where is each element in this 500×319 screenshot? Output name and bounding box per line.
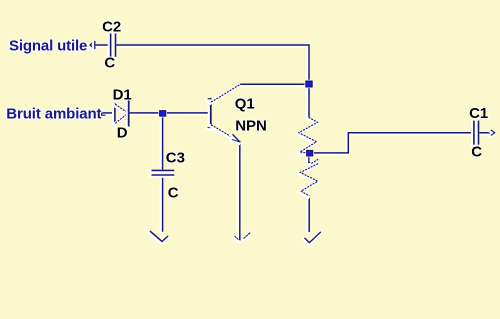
port arrow (output) [490, 131, 493, 136]
wire C2 to rail corner [115, 46, 308, 82]
node B (base junction) [160, 111, 166, 117]
svg-text:C: C [168, 185, 179, 202]
svg-text:NPN: NPN [235, 117, 267, 134]
transistor Q1 [207, 85, 240, 143]
wire C1 to output port [478, 132, 493, 136]
wire bruit port to D1 [102, 112, 114, 116]
wiper arrow mark [308, 156, 318, 164]
svg-text:C: C [471, 144, 482, 161]
diode D1 [114, 101, 129, 127]
svg-text:C1: C1 [469, 105, 488, 122]
ground below R2 [304, 233, 319, 243]
svg-text:D: D [117, 124, 128, 141]
svg-text:C: C [104, 54, 115, 71]
port bracket (Bruit ambiant input) [101, 113, 104, 116]
svg-text:C2: C2 [102, 18, 121, 35]
wire wiper to C1 [311, 134, 472, 154]
capacitor C2 [110, 34, 116, 57]
node A (collector junction) [306, 81, 312, 87]
wire C3 to ground [160, 177, 164, 232]
wire node A down to R1 [306, 88, 310, 118]
wire signal port to C2 [90, 44, 109, 48]
capacitor C1 [473, 121, 479, 144]
ground below emitter [234, 232, 251, 241]
svg-text:C3: C3 [166, 149, 185, 166]
wire collector to node A [239, 83, 305, 87]
ground below C3 [150, 233, 167, 243]
wire node B down to C3 [160, 117, 164, 170]
wire R2 to ground [306, 197, 310, 233]
svg-text:Bruit ambiant: Bruit ambiant [6, 106, 101, 123]
resistor R2 [299, 165, 317, 197]
svg-text:Q1: Q1 [235, 95, 255, 112]
wire D1 to node B [129, 112, 159, 116]
svg-text:Signal utile: Signal utile [9, 37, 87, 54]
svg-text:D1: D1 [113, 87, 132, 104]
port arrow (Signal utile input) [89, 42, 95, 50]
node C (wiper junction) [307, 150, 313, 156]
wire emitter down [237, 143, 241, 241]
wire node B to base [165, 112, 209, 116]
capacitor C3 [151, 170, 173, 176]
resistor R1 [298, 119, 317, 154]
